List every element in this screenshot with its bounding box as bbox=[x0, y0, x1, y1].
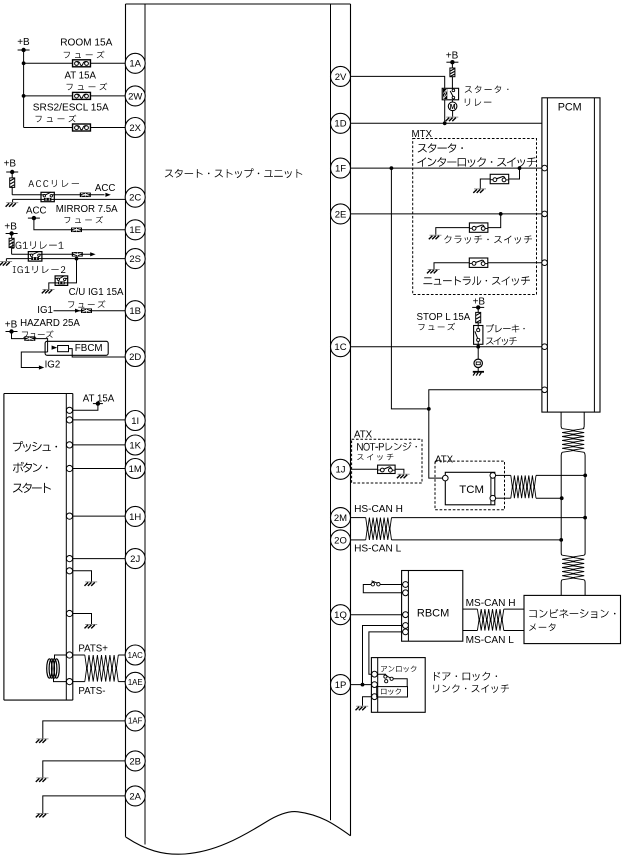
switch (RBCM input) bbox=[380, 584, 403, 586]
connector 2O bbox=[331, 530, 351, 550]
switch ブレーキ・スイッチ bbox=[474, 326, 483, 345]
node ロック box bbox=[377, 687, 408, 697]
svg-text:MS-CAN H: MS-CAN H bbox=[466, 598, 516, 609]
fusible link (IG1) bbox=[11, 234, 13, 239]
svg-text:STOP L 15A: STOP L 15A bbox=[417, 312, 471, 323]
connector 1A bbox=[125, 53, 145, 73]
svg-text:HS-CAN L: HS-CAN L bbox=[354, 544, 401, 555]
wire pin to connector 2J bbox=[73, 558, 126, 560]
fuse (IG1 relay-1 out) bbox=[72, 252, 83, 256]
wire IG1 relay coil to ground bbox=[6, 258, 28, 260]
wire IG1 relay-2 to ground bbox=[49, 283, 55, 289]
body ground (brake) bbox=[473, 371, 484, 373]
svg-text:2O: 2O bbox=[334, 535, 347, 546]
svg-text:+B: +B bbox=[4, 159, 17, 170]
svg-text:2X: 2X bbox=[129, 123, 141, 134]
wire MS-CAN L bbox=[463, 630, 478, 632]
ground (2A) bbox=[36, 813, 49, 817]
unit box TCM bbox=[445, 472, 495, 505]
ground (1AF) bbox=[36, 739, 49, 743]
wire +B to relay switch bbox=[12, 194, 41, 196]
connector 2S bbox=[125, 249, 145, 269]
arrow (IG1 feed) bbox=[90, 252, 95, 256]
wire +B to IG1 relay-1 bbox=[12, 253, 29, 255]
fuse ROOM 15A bbox=[73, 60, 91, 67]
svg-text:2J: 2J bbox=[130, 554, 140, 565]
connector 1Q bbox=[331, 605, 351, 625]
wire relay1 to connector 2S bbox=[42, 258, 126, 260]
wire to fuse SRS2/ESCL bbox=[24, 127, 126, 129]
pin RBCM 4 bbox=[403, 623, 409, 629]
ground (door switch) bbox=[356, 706, 369, 710]
fuse MIRROR 7.5A bbox=[71, 228, 82, 233]
svg-text:1J: 1J bbox=[335, 465, 345, 476]
pin RBCM 2 bbox=[403, 590, 409, 596]
unit box RBCM bbox=[402, 571, 463, 642]
svg-text:+B: +B bbox=[4, 222, 17, 233]
svg-text:1D: 1D bbox=[334, 119, 346, 130]
wire connector 1Q to RBCM bbox=[351, 614, 403, 616]
relay IG1リレー1 bbox=[28, 252, 42, 262]
svg-text:MS-CAN L: MS-CAN L bbox=[466, 635, 515, 646]
unit FBCM box bbox=[45, 341, 108, 355]
pin PCM (lower) bbox=[542, 387, 548, 393]
ground (neutral switch) bbox=[427, 269, 440, 273]
wire connector 1AF to ground bbox=[43, 721, 126, 739]
switch NOT-P range bbox=[378, 465, 396, 473]
relay ACCリレー bbox=[41, 192, 54, 201]
connector 1E bbox=[125, 220, 145, 240]
motor M (starter) bbox=[451, 100, 453, 102]
svg-text:SRS2/ESCL 15A: SRS2/ESCL 15A bbox=[33, 103, 109, 114]
wire pin to AT 15A bbox=[73, 404, 98, 411]
wire connector 2V to starter relay coil bbox=[351, 76, 445, 88]
connector 1AF bbox=[125, 711, 145, 731]
ground (push start B) bbox=[85, 624, 98, 628]
svg-text:2C: 2C bbox=[129, 193, 141, 204]
svg-text:1P: 1P bbox=[335, 680, 347, 691]
twisted pair MS-CAN bbox=[477, 609, 503, 622]
ground (interlock switch) bbox=[473, 189, 486, 193]
svg-text:ATX: ATX bbox=[435, 454, 454, 465]
wire connector 1F to PCM bbox=[351, 167, 542, 169]
connector 1D bbox=[331, 113, 351, 133]
wire pin to ground A bbox=[73, 571, 92, 582]
wire loom tab below PCM bbox=[560, 412, 562, 425]
svg-text:MIRROR 7.5A: MIRROR 7.5A bbox=[56, 204, 118, 215]
connector 1F bbox=[331, 158, 351, 178]
twisted pair TCM-PCM bbox=[511, 475, 536, 488]
pin door 3 (ground) bbox=[372, 694, 378, 700]
connector 2V bbox=[331, 66, 351, 86]
wire connector 2B to ground bbox=[43, 761, 126, 778]
wire brake switch to connector 1C and PCM bbox=[351, 346, 542, 348]
fuse C/U IG1 15A bbox=[81, 308, 92, 313]
svg-text:ROOM 15A: ROOM 15A bbox=[60, 37, 112, 48]
twisted pair PATS bbox=[85, 655, 119, 670]
svg-text:ACC: ACC bbox=[26, 205, 46, 216]
ground (2B) bbox=[36, 778, 49, 782]
switch door lock link bbox=[377, 673, 385, 676]
connector 1M bbox=[125, 459, 145, 479]
pin TCM right lower bbox=[490, 495, 496, 501]
svg-text:1F: 1F bbox=[335, 164, 346, 175]
connector 2D bbox=[125, 347, 145, 367]
wire coil to 1D wire bbox=[444, 100, 446, 124]
fuse SRS2/ESCL 15A bbox=[73, 124, 91, 131]
wire pin to connector 1K bbox=[73, 444, 126, 446]
wire pin to connector 1M bbox=[73, 468, 126, 470]
svg-text:1AF: 1AF bbox=[128, 717, 143, 726]
wire +B to HAZARD fuse bbox=[12, 332, 48, 353]
svg-text:PATS+: PATS+ bbox=[78, 644, 108, 655]
ground bolt (brake) bbox=[474, 359, 482, 367]
svg-text:M: M bbox=[450, 104, 456, 111]
twisted pair (below PCM) bbox=[562, 429, 575, 453]
wire FBCM to IG2 bbox=[21, 352, 47, 368]
wire TCM to twisted pair bbox=[496, 474, 511, 476]
wire FBCM to connector 2D bbox=[69, 349, 127, 357]
svg-text:2E: 2E bbox=[335, 209, 347, 220]
ground (IG1 relay-2) bbox=[42, 289, 55, 293]
fuse HAZARD 25A bbox=[24, 336, 35, 341]
svg-text:2W: 2W bbox=[128, 91, 142, 102]
svg-text:1I: 1I bbox=[131, 416, 139, 427]
svg-text:+B: +B bbox=[5, 320, 18, 331]
wire to IG1 relay-2 bbox=[68, 259, 77, 283]
wire twisted pair to CAN bus bbox=[536, 474, 585, 476]
connector 2B bbox=[125, 751, 145, 771]
wire relay to connector 2C bbox=[54, 198, 126, 200]
svg-text:+B: +B bbox=[17, 37, 30, 48]
fusible link STOP L 15A bbox=[477, 307, 479, 312]
pin TCM right upper bbox=[490, 473, 496, 479]
pin door 1 (unlock) bbox=[372, 671, 378, 677]
unit box コンビネーション・メータ bbox=[524, 595, 621, 643]
svg-text:HAZARD 25A: HAZARD 25A bbox=[20, 318, 80, 329]
unit name スタート・ストップ・ユニット bbox=[165, 168, 302, 178]
wire connector 2O HS-CAN L bbox=[351, 539, 366, 541]
svg-text:1B: 1B bbox=[129, 306, 141, 317]
wire connector 2M HS-CAN H bbox=[351, 517, 366, 519]
wire to fuse AT bbox=[24, 95, 126, 97]
svg-text:1AC: 1AC bbox=[128, 651, 144, 660]
connector 2A bbox=[125, 786, 145, 806]
svg-text:TCM: TCM bbox=[459, 484, 484, 496]
svg-text:1M: 1M bbox=[129, 464, 142, 475]
wire coil to ground bbox=[13, 198, 41, 200]
arrow (IG1 in) bbox=[75, 309, 80, 313]
connector 2W bbox=[125, 86, 145, 106]
wire pin to ground B bbox=[73, 614, 92, 625]
svg-text:ACC: ACC bbox=[95, 183, 115, 194]
pin RBCM 5 bbox=[403, 629, 409, 635]
svg-text:2D: 2D bbox=[129, 352, 141, 363]
connector 2J bbox=[125, 549, 145, 569]
wire ACC to MIRROR fuse bbox=[34, 218, 126, 230]
svg-text:1Q: 1Q bbox=[334, 610, 347, 621]
FBCM internal driver bbox=[52, 346, 58, 350]
wire MS-CAN H bbox=[463, 608, 478, 610]
svg-text:C/U IG1 15A: C/U IG1 15A bbox=[69, 287, 124, 298]
ground (IG1 relay-1) bbox=[0, 262, 12, 266]
connector 1AE bbox=[125, 672, 145, 692]
wire relay to ACC feed bbox=[54, 194, 104, 196]
pin (AT tap) bbox=[66, 407, 72, 413]
relay スタータ・リレー bbox=[442, 88, 458, 100]
wire RBCM to 1P wire bbox=[363, 626, 403, 685]
wire RBCM to door lock switch bbox=[369, 632, 403, 674]
pin RBCM 3 (1Q) bbox=[403, 612, 409, 618]
fusible link (ACC) bbox=[11, 172, 13, 178]
svg-text:PCM: PCM bbox=[558, 101, 582, 113]
connector 2M bbox=[331, 508, 351, 528]
PATS antenna coil bbox=[55, 655, 67, 660]
pin RBCM 1 bbox=[403, 582, 409, 588]
pin door 2 (common) bbox=[372, 682, 378, 688]
fuse (ACC feed) bbox=[80, 193, 91, 198]
svg-text:IG1: IG1 bbox=[37, 305, 53, 316]
relay IG1リレー2 bbox=[55, 276, 68, 286]
svg-text:RBCM: RBCM bbox=[417, 608, 449, 620]
twisted pair (above meter) bbox=[562, 555, 575, 580]
wire loom tab above meter bbox=[561, 580, 585, 596]
connector 2X bbox=[125, 118, 145, 138]
unit box PCM bbox=[542, 98, 600, 412]
connector 1AC bbox=[125, 645, 145, 665]
svg-text:2B: 2B bbox=[129, 756, 141, 767]
wire PATS- to connector 1AE bbox=[73, 681, 85, 683]
wire +B vertical bus bbox=[23, 50, 25, 128]
svg-text:2M: 2M bbox=[334, 513, 347, 524]
unit box スタート・ストップ・ユニット outline bbox=[126, 3, 351, 5]
svg-text:1AE: 1AE bbox=[128, 678, 143, 687]
switch ニュートラル・スイッチ bbox=[488, 262, 542, 264]
connector 2C bbox=[125, 187, 145, 207]
svg-text:FBCM: FBCM bbox=[75, 343, 103, 354]
connector 2E bbox=[331, 204, 351, 224]
ground (push start A) bbox=[85, 582, 98, 586]
connector 1C bbox=[331, 337, 351, 357]
arrow ACC bbox=[105, 193, 110, 197]
wire pin to connector 1H bbox=[73, 515, 126, 517]
shielded cable run (HS-CAN) bbox=[561, 452, 585, 555]
ground (clutch switch) bbox=[429, 235, 442, 239]
connector 1J bbox=[331, 459, 351, 479]
connector 1P bbox=[331, 675, 351, 695]
wire to fuse ROOM bbox=[24, 62, 126, 64]
pin PCM (1F) bbox=[542, 165, 548, 171]
wire connector 1D to PCM bbox=[351, 122, 542, 124]
pin TCM left bbox=[443, 475, 449, 481]
ground (NOT-P switch) bbox=[397, 474, 410, 478]
svg-text:HS-CAN H: HS-CAN H bbox=[354, 504, 403, 515]
arrow IG2 bbox=[39, 365, 44, 369]
pin PCM (neutral) bbox=[542, 260, 548, 266]
connector 1H bbox=[125, 506, 145, 526]
svg-text:AT 15A: AT 15A bbox=[65, 70, 97, 81]
switch クラッチ・スイッチ bbox=[488, 214, 501, 228]
pin PCM (1C) bbox=[542, 344, 548, 350]
svg-text:2S: 2S bbox=[129, 254, 141, 265]
wire PATS+ to connector 1AC bbox=[73, 654, 85, 656]
wire connector 1J to NOT-P switch bbox=[351, 468, 378, 470]
wire door switch to ground bbox=[363, 697, 372, 706]
wire connector 1P to door switch bbox=[351, 684, 372, 686]
wire 1F branch to PCM lower pin and TCM bbox=[391, 168, 428, 409]
svg-text:1A: 1A bbox=[129, 59, 141, 70]
wire connector 2E to PCM bbox=[351, 213, 542, 215]
unit box プッシュ・ボタン・スタート bbox=[4, 393, 73, 395]
connector 1I bbox=[125, 411, 145, 431]
svg-text:PATS-: PATS- bbox=[78, 686, 105, 697]
ground (starter motor) bbox=[446, 117, 459, 121]
svg-text:1E: 1E bbox=[129, 225, 141, 236]
switch starter interlock bbox=[509, 168, 520, 179]
svg-text:1C: 1C bbox=[334, 342, 346, 353]
fuse AT 15A bbox=[73, 92, 91, 99]
svg-text:+B: +B bbox=[446, 51, 459, 62]
svg-text:1K: 1K bbox=[129, 440, 141, 451]
pin PCM (2E) bbox=[542, 211, 548, 217]
wire connector 2A to ground bbox=[43, 796, 126, 813]
connector 1B bbox=[125, 301, 145, 321]
connector 1K bbox=[125, 435, 145, 455]
svg-text:1H: 1H bbox=[129, 512, 141, 523]
svg-text:IG2: IG2 bbox=[45, 360, 61, 371]
twisted pair HS-CAN bbox=[366, 518, 392, 531]
svg-text:2V: 2V bbox=[335, 72, 347, 83]
wire relay1 out with fuse bbox=[42, 253, 92, 255]
ground (ACC relay coil) bbox=[6, 203, 19, 207]
wire pin to connector 1I bbox=[73, 419, 126, 421]
unit box ドア・ロック・リンク・スイッチ bbox=[371, 658, 425, 713]
svg-text:2A: 2A bbox=[129, 791, 141, 802]
fusible link (starter relay) bbox=[451, 62, 453, 68]
